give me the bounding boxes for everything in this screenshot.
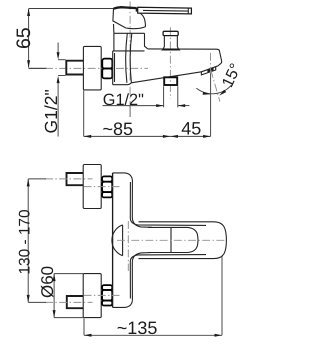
svg-text:~135: ~135 bbox=[117, 318, 158, 338]
svg-text:Ø60: Ø60 bbox=[38, 266, 57, 298]
svg-text:65: 65 bbox=[13, 27, 35, 49]
svg-text:130 - 170: 130 - 170 bbox=[17, 209, 34, 274]
svg-text:45: 45 bbox=[181, 118, 201, 138]
svg-text:G1/2": G1/2" bbox=[41, 89, 61, 133]
svg-text:~85: ~85 bbox=[103, 119, 134, 139]
svg-text:G1/2": G1/2" bbox=[103, 91, 144, 109]
